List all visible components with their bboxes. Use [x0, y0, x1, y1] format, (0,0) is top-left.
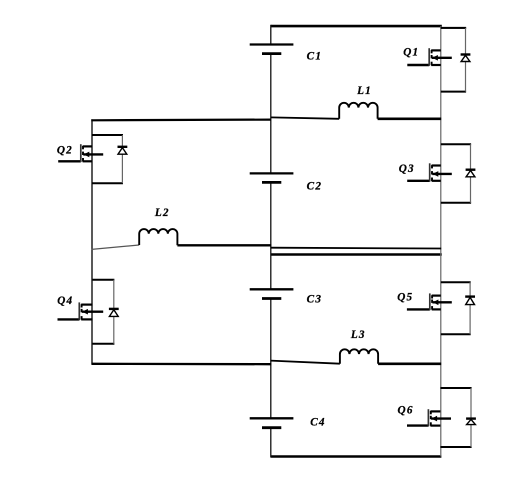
body diode of Q6 loop	[440, 388, 476, 447]
svg-text:C1: C1	[307, 50, 322, 62]
body diode of Q5 loop	[441, 282, 475, 334]
wire: left bus to L2 (sloped)	[92, 245, 140, 249]
capacitor C2	[250, 173, 322, 192]
wire: Q2 top rail to center column	[91, 118, 271, 121]
wire: Q1 unit top	[441, 27, 466, 29]
transistor Q6 (N-MOSFET)	[398, 405, 451, 427]
svg-text:C4: C4	[310, 417, 325, 429]
capacitor C4	[250, 417, 326, 429]
body diode of Q2 loop	[92, 135, 127, 183]
wire: bottom rail	[271, 455, 442, 458]
wire: left bus (Q2/Q4 chain)	[91, 119, 93, 364]
svg-text:L3: L3	[350, 329, 366, 341]
svg-text:C3: C3	[307, 293, 322, 305]
wire: left bus to center column (row 5)	[92, 363, 272, 366]
inductor L2	[139, 207, 177, 245]
svg-text:Q1: Q1	[403, 46, 419, 58]
capacitor C3	[250, 289, 322, 305]
svg-text:Q6: Q6	[398, 405, 414, 417]
transistor Q4 (N-MOSFET)	[57, 295, 103, 320]
wire: top rail	[271, 25, 442, 28]
svg-text:Q4: Q4	[57, 295, 73, 307]
body diode of Q3 loop	[441, 144, 476, 203]
transistor Q1 (N-MOSFET)	[403, 46, 452, 66]
inductor L1	[339, 85, 377, 119]
wire: middle section rail	[271, 253, 442, 256]
inductor L3	[340, 329, 378, 364]
svg-text:C2: C2	[307, 181, 322, 193]
transistor Q5 (N-MOSFET)	[397, 292, 452, 311]
wire: column to L3	[271, 361, 340, 364]
body diode of Q1 loop	[441, 28, 471, 92]
wire: L2 to center column	[177, 244, 271, 246]
svg-text:Q3: Q3	[399, 163, 415, 175]
wire: center column (node chain through C1-C4)	[270, 25, 272, 458]
wire: right bus (Q1/Q3/Q5/Q6 drain-source chain)	[440, 26, 442, 456]
body diode of Q4 loop	[92, 280, 118, 344]
capacitor C1	[250, 45, 322, 63]
wire: L3 to right bus	[378, 362, 441, 365]
wire: column to L1	[271, 117, 339, 118]
transistor Q2 (N-MOSFET)	[57, 144, 103, 162]
svg-text:Q5: Q5	[397, 292, 413, 304]
wire: column to right bus (row 3)	[271, 247, 442, 250]
wire: L1 to right bus	[378, 118, 442, 121]
svg-text:L2: L2	[154, 207, 170, 219]
transistor Q3 (N-MOSFET)	[399, 163, 452, 182]
svg-text:L1: L1	[356, 85, 372, 97]
svg-text:Q2: Q2	[57, 144, 73, 156]
